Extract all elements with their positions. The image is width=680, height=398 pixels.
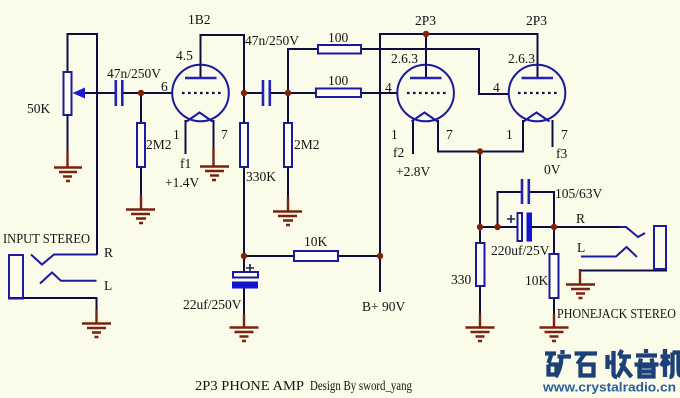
- watermark char shi: [575, 354, 598, 376]
- svg-text:2P3: 2P3: [526, 13, 547, 28]
- svg-text:1: 1: [391, 127, 398, 142]
- power tube U1 2P3 envelope: [397, 65, 454, 122]
- wire node G to C5 electrolytic: [480, 226, 517, 228]
- capacitor C1 47n/250V plates: [116, 80, 123, 106]
- svg-text:100: 100: [328, 30, 349, 45]
- wire node C to R3 top: [287, 93, 289, 123]
- svg-text:6: 6: [161, 79, 168, 94]
- svg-text:22uf/250V: 22uf/250V: [183, 297, 242, 312]
- wire U1 pin7 to U2 pin1: [438, 120, 523, 152]
- 1B2 pin7 lead: [213, 120, 215, 150]
- input jack R contact: [31, 255, 97, 265]
- svg-text:330: 330: [451, 272, 472, 287]
- resistor R1 2M2 body: [137, 123, 145, 167]
- U2 plate bar: [522, 77, 554, 80]
- ground R7: [466, 314, 495, 341]
- wire input R riser: [96, 33, 98, 255]
- 1B2 grid dashed line: [182, 92, 222, 94]
- ground input jack: [82, 310, 111, 337]
- svg-text:2.6.3: 2.6.3: [391, 51, 418, 66]
- svg-text:10K: 10K: [304, 234, 328, 249]
- svg-text:1: 1: [173, 127, 180, 142]
- wire wiper to C1: [83, 92, 115, 94]
- svg-text:f3: f3: [556, 146, 567, 161]
- wire node D to R6: [244, 255, 294, 257]
- potentiometer wiper arrow: [73, 88, 86, 99]
- U1 filament V: [412, 113, 438, 122]
- svg-text:PHONEJACK STEREO: PHONEJACK STEREO: [557, 306, 676, 321]
- wire C2 to node C: [270, 92, 289, 94]
- node H junction dot: [551, 224, 557, 230]
- ground R1: [126, 195, 155, 223]
- watermark char shou: [608, 350, 632, 377]
- resistor R5 100 body: [316, 89, 361, 98]
- wire U1 plate lead: [425, 34, 427, 78]
- wire phone jack sleeve to ground: [580, 268, 666, 271]
- wire R4 to U2 grid: [361, 49, 510, 94]
- wire C1 to node A to 1B2 grid: [123, 92, 173, 94]
- wire pot top to input R riser: [68, 34, 98, 73]
- node E junction dot: [377, 253, 383, 259]
- resistor R8 10K body: [550, 254, 559, 298]
- svg-text:L: L: [577, 240, 585, 255]
- svg-text:Design By sword_yang: Design By sword_yang: [310, 378, 412, 393]
- 1B2 filament V: [187, 113, 213, 122]
- phone jack R contact: [620, 227, 645, 237]
- svg-text:2.6.3: 2.6.3: [508, 51, 535, 66]
- power tube U2 2P3 envelope: [509, 65, 566, 122]
- resistor R4 100 body: [318, 45, 361, 54]
- wire input jack sleeve to ground: [9, 298, 97, 312]
- svg-text:www.crystalradio.cn: www.crystalradio.cn: [542, 380, 676, 395]
- node D junction dot: [241, 253, 247, 259]
- svg-text:B+ 90V: B+ 90V: [362, 299, 405, 314]
- svg-text:4: 4: [385, 80, 392, 95]
- U2 filament V: [524, 113, 550, 122]
- wire R3 bottom lead: [287, 166, 289, 199]
- node B junction dot: [241, 90, 247, 96]
- node C junction dot: [285, 90, 291, 96]
- capacitor C2 47n/250V plates: [263, 80, 270, 106]
- node A junction dot: [138, 90, 144, 96]
- svg-text:7: 7: [561, 127, 568, 142]
- wire R6 to node E: [338, 255, 380, 257]
- svg-text:105/63V: 105/63V: [555, 186, 603, 201]
- capacitor C4 22uf/250V positive plate: [233, 272, 258, 278]
- wire B+ bus: [380, 34, 538, 256]
- svg-text:47n/250V: 47n/250V: [107, 66, 161, 81]
- op tube U3 1B2 envelope: [172, 65, 229, 122]
- svg-text:0V: 0V: [544, 162, 561, 177]
- svg-text:7: 7: [446, 127, 453, 142]
- svg-text:f2: f2: [393, 145, 404, 160]
- watermark char ji: [661, 349, 680, 377]
- wire node H to phone jack R: [554, 226, 626, 228]
- svg-text:INPUT STEREO: INPUT STEREO: [3, 231, 90, 246]
- svg-text:2P3: 2P3: [415, 13, 436, 28]
- svg-text:f1: f1: [180, 156, 191, 171]
- svg-text:100: 100: [328, 73, 349, 88]
- svg-text:1B2: 1B2: [188, 12, 211, 27]
- svg-text:50K: 50K: [27, 101, 51, 116]
- svg-text:10K: 10K: [525, 273, 549, 288]
- node G junction dot: [477, 224, 483, 230]
- wire R7 bottom lead: [479, 286, 481, 316]
- resistor R6 10K body: [294, 251, 338, 261]
- 1B2 pin1 lead: [185, 120, 187, 154]
- phone jack body: [654, 226, 666, 269]
- svg-text:+1.4V: +1.4V: [165, 175, 199, 190]
- resistor R2 330K body: [240, 123, 248, 167]
- node G2 junction dot: [494, 224, 500, 230]
- U1 plate bar: [410, 77, 442, 80]
- phone jack L contact: [581, 247, 637, 257]
- capacitor C5 plus sign: [507, 215, 515, 223]
- wire C4 to ground lead: [243, 288, 245, 316]
- wire R2 330K bottom to node D: [243, 166, 245, 257]
- resistor R7 330 body: [476, 243, 485, 286]
- 1B2 plate bar: [185, 77, 217, 80]
- svg-text:2P3 PHONE AMP: 2P3 PHONE AMP: [195, 378, 304, 393]
- wire C6 parallel loop: [498, 192, 555, 227]
- ground R8: [540, 314, 569, 341]
- watermark char kuang: [545, 350, 571, 377]
- wire U2 pin7 filament f3: [552, 120, 554, 147]
- svg-text:R: R: [104, 245, 113, 260]
- ground phone jack: [566, 269, 595, 298]
- potentiometer bottom lead: [67, 115, 69, 153]
- svg-text:220uf/25V: 220uf/25V: [491, 243, 550, 258]
- watermark char yin: [635, 349, 659, 377]
- node F junction dot: [477, 148, 483, 154]
- resistor R3 2M2 body: [284, 123, 292, 167]
- svg-text:4: 4: [493, 80, 500, 95]
- wire U1 pin1 filament f2: [412, 120, 414, 154]
- svg-text:1: 1: [506, 127, 513, 142]
- svg-text:2M2: 2M2: [146, 137, 172, 152]
- capacitor C5 negative plate: [527, 213, 533, 242]
- svg-text:47n/250V: 47n/250V: [245, 33, 299, 48]
- wire node A to R1 top: [140, 93, 142, 123]
- svg-text:330K: 330K: [246, 169, 276, 184]
- capacitor C4 plus sign: [246, 264, 254, 272]
- capacitor C6 105/63V plates: [522, 179, 529, 204]
- wire R1 bottom lead: [140, 166, 142, 197]
- capacitor C4 negative plate: [232, 282, 258, 289]
- wire C5 to node H: [532, 226, 554, 228]
- wire node C to R5: [288, 92, 316, 94]
- U2 grid dashed line: [518, 92, 558, 94]
- ground pot: [54, 151, 82, 181]
- wire R5 to U1 grid: [361, 92, 398, 94]
- wire node H to R8 10K: [553, 227, 555, 254]
- wire R8 bottom lead: [553, 298, 555, 316]
- ground R3: [273, 197, 302, 225]
- wire node B to R2 330K top: [243, 93, 245, 123]
- wire node F down to R7 330: [479, 152, 481, 244]
- wire B+ stub: [379, 256, 381, 292]
- svg-text:7: 7: [221, 127, 228, 142]
- node E1 plate bus junction dot: [423, 31, 429, 37]
- svg-text:L: L: [104, 278, 112, 293]
- ground C4: [230, 314, 259, 341]
- input jack body: [9, 255, 23, 299]
- potentiometer 50K body: [64, 72, 72, 115]
- svg-text:R: R: [576, 211, 585, 226]
- wire node B to C2: [244, 92, 263, 94]
- svg-text:+2.8V: +2.8V: [396, 164, 430, 179]
- svg-text:4.5: 4.5: [176, 48, 193, 63]
- U1 grid dashed line: [407, 92, 447, 94]
- ground 1B2 pin7: [200, 148, 229, 180]
- svg-text:2M2: 2M2: [294, 137, 320, 152]
- wire 1B2 plate to node B: [201, 35, 245, 94]
- wire node C up to R4: [288, 49, 318, 94]
- input jack L contact: [40, 273, 97, 284]
- capacitor C5 220uf/25V positive plate: [518, 213, 523, 241]
- wire node D to C4 positive plate: [243, 256, 245, 272]
